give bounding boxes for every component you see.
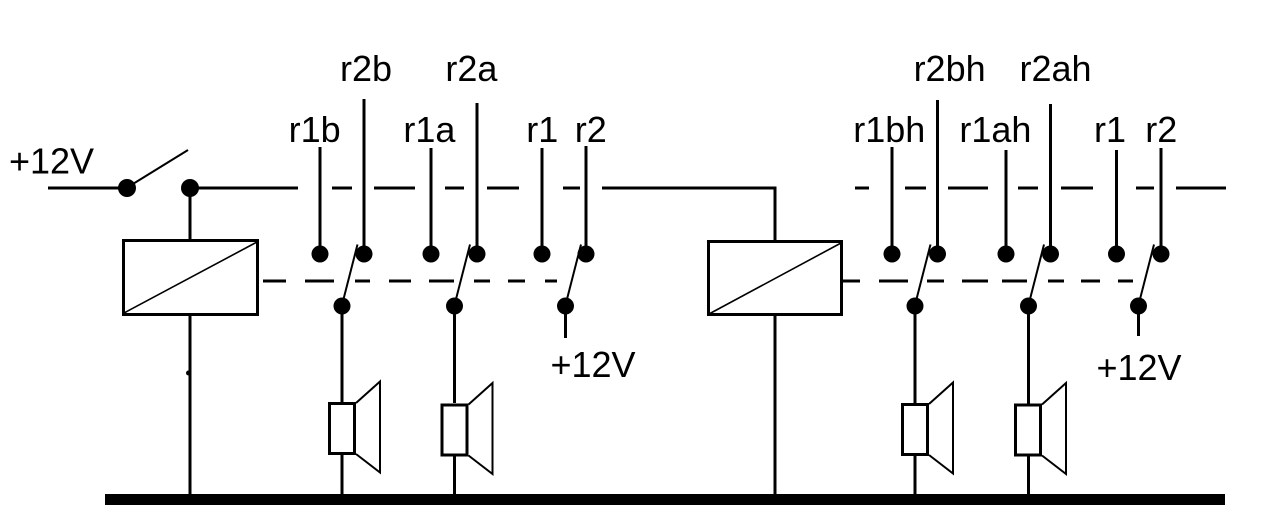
svg-text:+12V: +12V — [550, 344, 635, 385]
svg-text:r2: r2 — [1145, 109, 1177, 150]
svg-text:r1b: r1b — [289, 109, 341, 150]
svg-text:r2: r2 — [575, 109, 607, 150]
svg-text:+12V: +12V — [9, 141, 94, 182]
svg-text:r1: r1 — [526, 109, 558, 150]
svg-text:r2b: r2b — [340, 48, 392, 89]
svg-text:r1a: r1a — [403, 109, 456, 150]
svg-text:r2a: r2a — [445, 48, 498, 89]
svg-text:r2ah: r2ah — [1019, 48, 1091, 89]
svg-text:r2bh: r2bh — [914, 48, 986, 89]
svg-text:r1ah: r1ah — [959, 109, 1031, 150]
svg-text:r1: r1 — [1094, 109, 1126, 150]
svg-text:+12V: +12V — [1096, 347, 1181, 388]
svg-text:r1bh: r1bh — [853, 109, 925, 150]
